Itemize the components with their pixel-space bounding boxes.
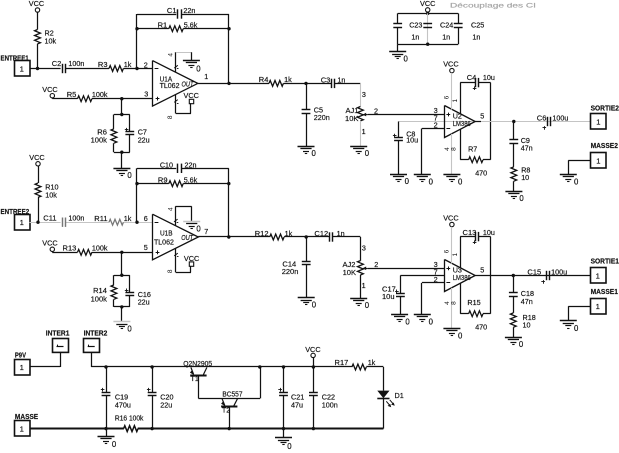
- svg-text:0: 0: [574, 177, 579, 186]
- ground R18: [505, 337, 522, 339]
- svg-text:0: 0: [405, 317, 410, 326]
- svg-text:R16 100k: R16 100k: [115, 413, 144, 422]
- svg-text:C3: C3: [321, 75, 331, 84]
- connector SORTIE2: [591, 114, 607, 130]
- svg-text:3: 3: [362, 90, 366, 99]
- svg-text:0: 0: [574, 324, 579, 333]
- wire U3 pin6 stub: [451, 227, 453, 264]
- svg-text:VCC: VCC: [443, 59, 458, 68]
- node combo top ch2: [120, 274, 123, 277]
- wire combo frame ch2: [114, 275, 130, 277]
- node ENTREE2 junction: [36, 221, 39, 224]
- wire INTER1 stub: [60, 352, 62, 367]
- node decoupling top: [426, 12, 429, 15]
- svg-text:100n: 100n: [322, 401, 338, 410]
- ground R6-C7: [113, 168, 130, 170]
- op-amp U1B TL062: [153, 214, 199, 260]
- svg-text:INTER2: INTER2: [84, 329, 108, 338]
- svg-text:U1B: U1B: [160, 228, 173, 237]
- node C14 junction: [305, 235, 308, 238]
- svg-text:100k: 100k: [91, 295, 108, 304]
- resistor R1: [169, 26, 183, 32]
- wire T2 base: [229, 407, 231, 429]
- svg-text:0: 0: [458, 177, 463, 186]
- svg-text:10: 10: [521, 173, 529, 182]
- svg-text:VCC: VCC: [184, 91, 199, 100]
- svg-text:TL062: TL062: [154, 237, 174, 246]
- svg-text:100u: 100u: [551, 267, 567, 276]
- wire U2 pin7: [399, 121, 476, 123]
- wire T1 base to T2: [198, 376, 200, 399]
- svg-text:5: 5: [144, 243, 148, 252]
- svg-text:1n: 1n: [472, 32, 480, 41]
- wire ENTREE1 to C2: [30, 68, 61, 70]
- resistor R6: [111, 129, 117, 143]
- node C5 junction: [304, 82, 307, 85]
- svg-text:0: 0: [196, 64, 201, 73]
- svg-text:INTER1: INTER1: [46, 329, 70, 338]
- node feedback A2: [135, 221, 138, 224]
- svg-text:100k: 100k: [92, 244, 108, 253]
- connector MASSE2: [591, 153, 607, 169]
- wire decoupling bottom: [398, 44, 459, 46]
- resistor R8: [511, 167, 517, 181]
- capacitor C11: [62, 218, 64, 227]
- power VCC U2: [450, 68, 454, 72]
- wire VCC2 stem: [38, 166, 40, 183]
- node rail T2: [258, 365, 261, 368]
- node rail VCC: [312, 365, 315, 368]
- svg-text:6: 6: [444, 95, 451, 99]
- wire INTER2 stub: [91, 352, 93, 367]
- svg-text:8: 8: [451, 147, 458, 151]
- ground C14: [298, 297, 315, 299]
- wire U1A out to R4: [198, 83, 269, 85]
- power VCC (R5): [50, 94, 54, 98]
- node MASSE C20: [150, 427, 153, 430]
- capacitor C18: [513, 276, 515, 293]
- svg-text:1: 1: [596, 117, 600, 126]
- node R1 right: [227, 27, 230, 30]
- node MASSE C22: [312, 427, 315, 430]
- wire R1 row: [137, 28, 169, 30]
- wire U2 pin2: [422, 128, 444, 130]
- svg-text:0: 0: [429, 177, 434, 186]
- svg-text:100n: 100n: [68, 214, 84, 223]
- svg-text:100k: 100k: [92, 90, 108, 99]
- svg-text:10: 10: [523, 321, 531, 330]
- svg-text:5.6k: 5.6k: [184, 21, 198, 30]
- resistor R5: [78, 96, 92, 102]
- ground C17: [391, 314, 408, 316]
- svg-text:10K: 10K: [345, 114, 358, 123]
- potentiometer AJ1: [358, 107, 364, 121]
- wire combo frame ch1: [114, 114, 130, 116]
- resistor R9: [169, 181, 183, 187]
- potentiometer AJ2: [358, 261, 364, 275]
- resistor R12: [270, 234, 284, 240]
- node R1 left: [135, 27, 138, 30]
- wire R17 to D1: [366, 366, 383, 368]
- connector MASSE1: [591, 299, 607, 315]
- wire combo to ground ch1: [121, 152, 123, 168]
- wire decoupling top: [427, 12, 429, 13]
- ground AJ1: [350, 146, 367, 148]
- wire feedback riser right ch1: [228, 14, 230, 83]
- ground U2 pin4: [443, 174, 460, 176]
- wire U2 pin4 stub: [451, 134, 453, 175]
- node feedback A1: [135, 67, 138, 70]
- svg-text:0: 0: [127, 324, 132, 333]
- svg-text:10k: 10k: [45, 191, 57, 200]
- svg-text:ENTREE2: ENTREE2: [1, 207, 30, 216]
- svg-text:MASSE: MASSE: [15, 412, 38, 421]
- svg-text:22n: 22n: [183, 6, 195, 15]
- svg-text:VCC: VCC: [29, 0, 44, 8]
- svg-text:7: 7: [204, 227, 208, 236]
- svg-text:10u: 10u: [382, 292, 395, 301]
- svg-text:0: 0: [405, 177, 410, 186]
- node R9 left: [135, 182, 138, 185]
- svg-text:MASSE2: MASSE2: [591, 141, 618, 150]
- svg-text:47n: 47n: [521, 297, 533, 306]
- svg-text:C24: C24: [440, 20, 453, 29]
- capacitor C24: [427, 13, 429, 44]
- svg-text:470: 470: [475, 169, 487, 178]
- resistor R11: [109, 219, 123, 225]
- svg-text:BC557: BC557: [222, 389, 242, 398]
- ground decoupling: [389, 51, 406, 53]
- svg-text:VCC: VCC: [305, 345, 320, 354]
- svg-text:4: 4: [168, 53, 175, 57]
- wire feedback riser right ch2: [228, 168, 230, 237]
- svg-text:2: 2: [374, 260, 378, 269]
- svg-text:1k: 1k: [124, 60, 132, 69]
- svg-text:100u: 100u: [552, 113, 568, 122]
- wire C4-R7 right link: [490, 83, 492, 160]
- svg-text:1: 1: [596, 271, 600, 280]
- svg-text:1: 1: [20, 64, 24, 73]
- svg-text:1k: 1k: [284, 75, 292, 84]
- svg-text:100k: 100k: [91, 136, 108, 145]
- wire MASSE line: [30, 428, 124, 430]
- svg-text:D1: D1: [395, 391, 404, 400]
- svg-text:Découplage des CI: Découplage des CI: [450, 2, 536, 9]
- svg-text:22u: 22u: [160, 401, 172, 410]
- node U1A output junction: [227, 82, 230, 85]
- svg-text:47u: 47u: [291, 401, 303, 410]
- wire ENTREE2 line gray: [30, 222, 61, 224]
- ground C21 node: [275, 437, 292, 439]
- resistor R15: [460, 313, 468, 315]
- ground C5: [298, 146, 315, 148]
- node combo bottom ch2: [120, 305, 123, 308]
- ground AJ2: [350, 298, 367, 300]
- capacitor C6: [547, 117, 549, 126]
- node combo top ch1: [120, 113, 123, 116]
- svg-text:5.6k: 5.6k: [184, 175, 198, 184]
- svg-text:1k: 1k: [124, 214, 132, 223]
- svg-text:R7: R7: [468, 144, 477, 153]
- node decoupling bottom: [426, 43, 429, 46]
- ground MASSE2: [560, 174, 577, 176]
- ground U2 pin2: [414, 174, 431, 176]
- power VCC (R13): [50, 247, 54, 251]
- ground C8: [390, 174, 407, 176]
- capacitor C16: [125, 292, 134, 294]
- connector ENTREE2: [15, 215, 31, 231]
- power VCC square U1A: [189, 99, 193, 103]
- capacitor C4: [460, 82, 475, 84]
- svg-text:0: 0: [429, 317, 434, 326]
- wire C21 gnd stub: [283, 429, 285, 438]
- wire R9 row: [137, 183, 169, 185]
- wire VCC1 stem: [37, 12, 39, 29]
- svg-text:3: 3: [144, 90, 148, 99]
- wire C3 to AJ1: [335, 83, 361, 85]
- wire P9V to INTER1: [30, 366, 61, 368]
- resistor R13: [78, 249, 92, 255]
- svg-text:R3: R3: [98, 60, 108, 69]
- svg-text:C6: C6: [537, 113, 547, 122]
- wire U1A pin4 to ground: [176, 52, 192, 54]
- power VCC bottom: [311, 353, 315, 357]
- svg-text:6: 6: [444, 249, 451, 253]
- svg-text:10K: 10K: [343, 268, 356, 277]
- node MASSE C21: [282, 427, 285, 430]
- node MASSE gnd: [104, 427, 107, 430]
- wire U3 pin4 stub: [451, 288, 453, 329]
- svg-text:OUT: OUT: [181, 233, 194, 242]
- svg-text:R9: R9: [158, 175, 168, 184]
- resistor R3: [109, 66, 123, 72]
- wire R3 to U1A pin2: [123, 68, 152, 70]
- capacitor C8: [398, 122, 400, 138]
- wire U3 pin8 stub: [460, 283, 462, 313]
- ground MASSE1: [560, 320, 577, 322]
- capacitor C25: [458, 13, 460, 23]
- svg-text:R17: R17: [335, 358, 349, 367]
- svg-text:22u: 22u: [138, 297, 150, 306]
- wire R4 to C3: [283, 83, 331, 85]
- svg-text:MASSE1: MASSE1: [591, 287, 618, 296]
- svg-text:C1: C1: [167, 6, 177, 15]
- svg-text:5: 5: [480, 265, 484, 274]
- wire U3 pin1 stub: [460, 237, 462, 268]
- svg-text:OUT: OUT: [182, 79, 195, 88]
- node U2 out junction: [512, 120, 515, 123]
- svg-text:0: 0: [127, 171, 132, 180]
- svg-text:1: 1: [596, 302, 600, 311]
- svg-text:R13: R13: [63, 244, 77, 253]
- wire AJ2 pin1 to ground: [360, 275, 362, 298]
- wire C10 row: [137, 168, 176, 170]
- svg-text:P9V: P9V: [15, 351, 26, 360]
- wire AJ2 wiper to U3 pin3: [368, 268, 445, 270]
- wire U1B pin8 stub: [174, 253, 178, 256]
- capacitor C20: [152, 367, 154, 392]
- svg-text:0: 0: [196, 224, 201, 233]
- svg-text:1n: 1n: [411, 32, 419, 41]
- svg-text:C4: C4: [467, 73, 477, 82]
- svg-text:0: 0: [404, 54, 409, 63]
- svg-text:8: 8: [167, 115, 174, 119]
- svg-text:R5: R5: [67, 90, 77, 99]
- wire AJ1 wiper to U2 pin3: [368, 114, 445, 116]
- op-amp U1A TL062: [153, 61, 198, 107]
- wire C12 to AJ2: [333, 236, 361, 238]
- connector INTER2: [84, 339, 100, 353]
- wire combo to ground ch2: [121, 307, 123, 322]
- capacitor C19: [106, 367, 108, 392]
- svg-text:0: 0: [312, 149, 317, 158]
- svg-text:1n: 1n: [442, 32, 450, 41]
- ground U1B pin4: [183, 221, 200, 223]
- svg-text:VCC: VCC: [184, 254, 199, 263]
- svg-text:3: 3: [362, 244, 366, 253]
- ground U3 pin2: [414, 314, 431, 316]
- svg-text:R15: R15: [467, 298, 480, 307]
- wire feedback riser left ch1: [136, 14, 138, 69]
- capacitor C22: [313, 367, 315, 392]
- node U3 out junction: [512, 274, 515, 277]
- svg-text:ENTREE1: ENTREE1: [1, 53, 29, 62]
- wire R12 to C12: [284, 236, 329, 238]
- svg-text:1k: 1k: [368, 358, 376, 367]
- svg-text:R4: R4: [259, 75, 269, 84]
- wire U3 pin7: [400, 275, 444, 277]
- wire AJ2 pin3 stub: [360, 237, 362, 261]
- wire U2 pin1 stub: [460, 83, 462, 114]
- svg-text:0: 0: [519, 194, 524, 203]
- svg-text:VCC: VCC: [42, 239, 57, 248]
- resistor R2: [35, 30, 41, 44]
- svg-text:1: 1: [20, 218, 24, 227]
- wire U2 pin8 stub: [460, 129, 462, 159]
- node R5 junction: [120, 97, 123, 100]
- svg-text:1: 1: [362, 281, 366, 290]
- svg-text:1: 1: [204, 72, 208, 81]
- wire C13-R15 right link: [490, 237, 492, 314]
- svg-text:0: 0: [287, 442, 292, 451]
- svg-text:2: 2: [144, 60, 148, 69]
- ground U1A pin4: [183, 60, 200, 62]
- svg-text:0: 0: [365, 149, 370, 158]
- node R9 right: [227, 182, 230, 185]
- svg-text:C13: C13: [463, 228, 477, 237]
- wire R5 node to combo ch1: [121, 99, 123, 115]
- wire MASSE2 to ground: [568, 160, 590, 162]
- wire U3 pin2: [422, 282, 444, 284]
- node U1B output junction: [227, 235, 230, 238]
- svg-text:VCC: VCC: [420, 0, 435, 8]
- connector SORTIE1: [591, 268, 607, 284]
- svg-text:0: 0: [519, 340, 524, 349]
- svg-text:220n: 220n: [314, 113, 330, 122]
- capacitor C3: [331, 79, 333, 88]
- svg-text:VCC: VCC: [443, 213, 458, 222]
- svg-text:C11: C11: [43, 214, 56, 223]
- power VCC (R2 top): [35, 8, 39, 12]
- svg-text:0: 0: [365, 301, 370, 310]
- svg-text:VCC: VCC: [42, 85, 57, 94]
- wire VCC bottom stem: [313, 358, 315, 367]
- wire D1 cathode: [383, 398, 385, 428]
- svg-text:1: 1: [596, 156, 600, 165]
- capacitor C23: [397, 13, 399, 23]
- resistor R10: [35, 183, 41, 197]
- wire U1A pin8 stub: [174, 100, 178, 103]
- svg-text:R12: R12: [255, 229, 269, 238]
- svg-text:10u: 10u: [483, 73, 495, 82]
- svg-text:R11: R11: [94, 214, 107, 223]
- svg-text:1: 1: [20, 424, 24, 433]
- ground R14-C16: [113, 321, 130, 323]
- svg-text:5: 5: [480, 111, 484, 120]
- node R13 junction: [120, 251, 123, 254]
- svg-text:1: 1: [452, 99, 459, 103]
- wire C2 to R3: [66, 68, 109, 70]
- svg-text:0: 0: [458, 331, 463, 340]
- capacitor C13: [460, 236, 475, 238]
- node ENTREE1 junction: [36, 67, 39, 70]
- wire MASSE gnd stub: [106, 429, 108, 437]
- capacitor C14: [306, 237, 308, 262]
- capacitor C15: [546, 271, 548, 280]
- svg-text:220n: 220n: [282, 267, 299, 276]
- capacitor C7: [125, 131, 134, 133]
- power VCC decoupling: [426, 8, 430, 12]
- capacitor C21: [283, 367, 285, 392]
- svg-text:470u: 470u: [115, 401, 131, 410]
- LED D1: [377, 391, 389, 399]
- capacitor C5: [306, 83, 308, 110]
- svg-text:470: 470: [475, 322, 487, 331]
- svg-text:LM386: LM386: [453, 273, 471, 282]
- op-amp U3 LM386: [445, 260, 476, 292]
- svg-text:C2: C2: [52, 59, 62, 68]
- svg-text:C12: C12: [314, 229, 328, 238]
- wire U1B pin4 stub: [175, 206, 177, 225]
- svg-text:C10: C10: [160, 160, 173, 169]
- wire AJ1 pin1 to ground: [360, 121, 362, 146]
- svg-text:0: 0: [112, 440, 117, 449]
- svg-text:10k: 10k: [45, 37, 57, 46]
- svg-text:4: 4: [167, 207, 174, 211]
- svg-text:TL062: TL062: [160, 81, 180, 90]
- svg-text:10u: 10u: [483, 228, 495, 237]
- capacitor C10: [177, 164, 179, 173]
- svg-text:1: 1: [20, 363, 24, 372]
- node rail C20: [150, 365, 153, 368]
- wire R13 node to combo ch2: [121, 252, 123, 275]
- connector P9V: [15, 360, 31, 376]
- capacitor C2: [62, 64, 64, 73]
- svg-text:100n: 100n: [68, 59, 84, 68]
- wire U1B out to R12: [198, 236, 269, 238]
- svg-text:SORTIE1: SORTIE1: [591, 256, 619, 265]
- power VCC (R10 top): [36, 162, 40, 166]
- connector INTER1: [53, 339, 69, 353]
- capacitor C1: [177, 9, 179, 18]
- resistor R14: [111, 285, 117, 299]
- svg-text:C15: C15: [527, 267, 541, 276]
- resistor R17: [352, 364, 366, 370]
- node rail C21: [282, 365, 285, 368]
- wire U3 output: [475, 275, 590, 277]
- svg-text:Q2N2905: Q2N2905: [183, 359, 212, 368]
- resistor R4: [269, 81, 283, 87]
